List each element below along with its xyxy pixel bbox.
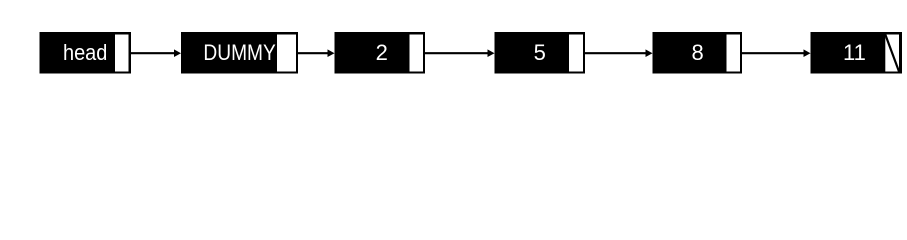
wire arrow head to DUMMY — [131, 49, 181, 57]
wire arrow 5 to 8 — [585, 49, 653, 57]
svg-text:DUMMY: DUMMY — [203, 40, 276, 65]
node 11 box — [811, 32, 903, 74]
svg-text:8: 8 — [691, 40, 703, 65]
wire arrow 8 to 11 — [742, 49, 811, 57]
svg-text:5: 5 — [534, 40, 546, 65]
svg-text:2: 2 — [376, 40, 388, 65]
node DUMMY box — [181, 32, 298, 74]
node 11 null slash — [885, 35, 899, 72]
svg-text:head: head — [63, 40, 107, 65]
node 8 box — [653, 32, 743, 74]
wire arrow 2 to 5 — [425, 49, 495, 57]
svg-text:11: 11 — [843, 40, 866, 65]
node 2 box — [335, 32, 426, 74]
wire arrow DUMMY to 2 — [298, 49, 335, 57]
node 5 box — [495, 32, 586, 74]
node head box — [40, 32, 132, 74]
